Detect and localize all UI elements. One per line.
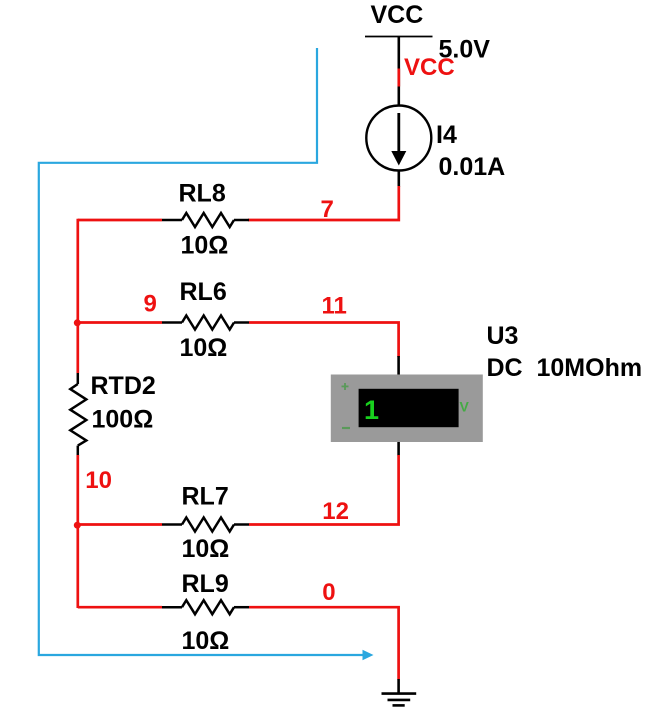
svg-text:0: 0 [322,579,335,606]
svg-text:10Ω: 10Ω [181,232,229,260]
svg-text:1: 1 [364,395,379,425]
svg-text:VCC: VCC [371,1,424,29]
wire node 9 [78,219,162,373]
wire net VCC [397,69,400,87]
current source I4 [366,106,431,188]
svg-text:RL9: RL9 [182,570,229,598]
svg-text:10: 10 [85,467,112,494]
ground [382,679,417,705]
wire node 7 [248,186,399,220]
resistor RL9 [162,600,249,614]
svg-text:9: 9 [144,291,157,318]
svg-text:RL7: RL7 [182,483,229,511]
svg-text:7: 7 [321,196,334,223]
svg-text:RL6: RL6 [180,278,227,306]
svg-text:VCC: VCC [404,54,455,81]
svg-text:I4: I4 [436,121,457,149]
wire blue annotation arrow [39,48,374,660]
svg-text:10Ω: 10Ω [182,535,230,563]
multimeter U3 [331,356,483,456]
wire node 0 [249,607,399,679]
resistor RTD2 [70,373,86,456]
resistor RL8 [162,213,249,227]
svg-text:V: V [460,399,470,415]
svg-text:DC 10MOhm: DC 10MOhm [487,354,643,382]
junction node 10 [74,522,81,529]
svg-text:10Ω: 10Ω [182,627,230,655]
svg-text:U3: U3 [487,322,519,350]
svg-text:0.01A: 0.01A [439,153,506,181]
svg-text:10Ω: 10Ω [180,334,228,362]
wire node 11 [249,323,399,358]
wire node 10 [78,455,162,608]
junction node 9 [74,319,81,326]
svg-text:12: 12 [322,498,349,525]
svg-text:RTD2: RTD2 [91,372,156,400]
power symbol VCC [365,37,433,107]
svg-text:RL8: RL8 [179,180,226,208]
resistor RL7 [162,518,249,532]
wire node 12 [249,455,399,525]
svg-text:11: 11 [322,293,347,320]
svg-text:100Ω: 100Ω [92,406,154,434]
resistor RL6 [162,316,249,330]
